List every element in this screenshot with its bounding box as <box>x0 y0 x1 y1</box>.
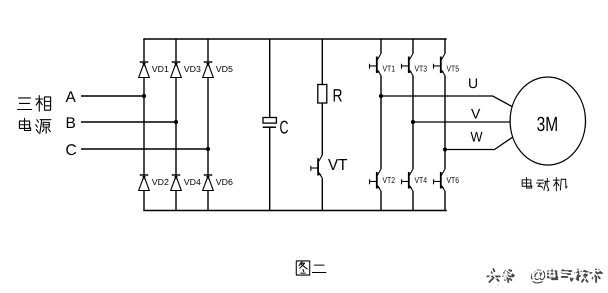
wire: rectifier leg x=144 middle segment <box>143 78 145 176</box>
caption 图二 (Figure 2) <box>296 261 326 275</box>
svg-text:U: U <box>468 75 478 91</box>
capacitor C <box>263 117 289 138</box>
wire: capacitor branch lower <box>269 127 271 210</box>
wire: output U <box>381 96 512 107</box>
motor 3M <box>510 77 585 165</box>
wire: inverter leg x=381 lower segment <box>380 191 382 211</box>
node C junction <box>206 147 210 151</box>
svg-text:VT4: VT4 <box>415 175 428 185</box>
wire: brake branch middle <box>321 103 323 155</box>
wire: phase B input line <box>81 121 176 123</box>
svg-text:3M: 3M <box>537 113 559 136</box>
svg-text:VD4: VD4 <box>184 177 201 187</box>
wire: inverter leg x=445 middle segment <box>444 76 446 170</box>
wire: phase A input line <box>81 95 144 97</box>
svg-text:B: B <box>66 115 76 132</box>
node B junction <box>174 120 178 124</box>
wire: inverter leg x=381 middle segment <box>380 76 382 170</box>
wire: capacitor branch upper <box>269 39 271 118</box>
svg-text:VD6: VD6 <box>216 177 233 187</box>
wire: rectifier leg x=176 lower segment <box>175 191 177 211</box>
wire: output V <box>413 121 510 123</box>
diode VD4 <box>171 175 201 191</box>
svg-text:VT6: VT6 <box>447 175 460 185</box>
wire: rectifier leg x=176 upper segment <box>175 39 177 62</box>
svg-text:VD5: VD5 <box>216 64 233 74</box>
wire: brake branch lower <box>321 178 323 210</box>
svg-text:A: A <box>66 89 77 106</box>
svg-text:VT: VT <box>328 157 348 174</box>
wire: rectifier leg x=208 lower segment <box>207 191 209 211</box>
wire: inverter leg x=445 lower segment <box>444 191 446 211</box>
node A junction <box>142 94 146 98</box>
diode VD6 <box>203 175 233 191</box>
wire: inverter leg x=413 middle segment <box>412 76 414 170</box>
diode VD1 <box>139 62 169 78</box>
wire: bottom DC bus (-) <box>143 210 446 212</box>
svg-text:R: R <box>333 86 343 106</box>
svg-text:VD1: VD1 <box>152 64 169 74</box>
label 电动机 (motor) <box>522 178 567 191</box>
transistor VT4 <box>402 169 428 191</box>
watermark 头条@电气技术 <box>485 264 602 285</box>
node U junction <box>379 94 383 98</box>
wire: rectifier leg x=144 upper segment <box>143 39 145 62</box>
wire: phase C input line <box>81 148 208 150</box>
resistor R <box>318 85 343 106</box>
wire: inverter leg x=445 upper segment <box>444 39 446 54</box>
svg-text:C: C <box>66 142 77 159</box>
wire: inverter leg x=413 upper segment <box>412 39 414 54</box>
wire: inverter leg x=381 upper segment <box>380 39 382 54</box>
diode VD3 <box>171 62 201 78</box>
svg-text:VT5: VT5 <box>447 64 460 74</box>
label 三相电源 (three-phase source) <box>17 96 51 134</box>
node V junction <box>411 120 415 124</box>
transistor VT (brake chopper) <box>311 155 348 178</box>
wire: rectifier leg x=176 middle segment <box>175 78 177 176</box>
wire: inverter leg x=413 lower segment <box>412 191 414 211</box>
wire: rectifier leg x=208 middle segment <box>207 78 209 176</box>
svg-text:@: @ <box>528 264 545 283</box>
wire: top DC bus (+) <box>143 38 446 40</box>
svg-text:VD2: VD2 <box>152 177 169 187</box>
diode VD2 <box>139 175 169 191</box>
svg-text:C: C <box>280 117 289 138</box>
transistor VT1 <box>370 54 396 76</box>
svg-text:VT3: VT3 <box>415 64 428 74</box>
wire: brake branch upper <box>321 39 323 85</box>
transistor VT6 <box>434 169 460 191</box>
diode VD5 <box>203 62 233 78</box>
transistor VT5 <box>434 54 460 76</box>
transistor VT3 <box>402 54 428 76</box>
svg-text:VT1: VT1 <box>383 64 396 74</box>
svg-text:VD3: VD3 <box>184 64 201 74</box>
wire: rectifier leg x=208 upper segment <box>207 39 209 62</box>
svg-text:V: V <box>471 106 481 122</box>
transistor VT2 <box>370 169 396 191</box>
wire: output W <box>445 137 513 150</box>
node W junction <box>443 147 447 151</box>
wire: rectifier leg x=144 lower segment <box>143 191 145 211</box>
svg-text:VT2: VT2 <box>383 175 396 185</box>
svg-text:W: W <box>471 129 484 145</box>
